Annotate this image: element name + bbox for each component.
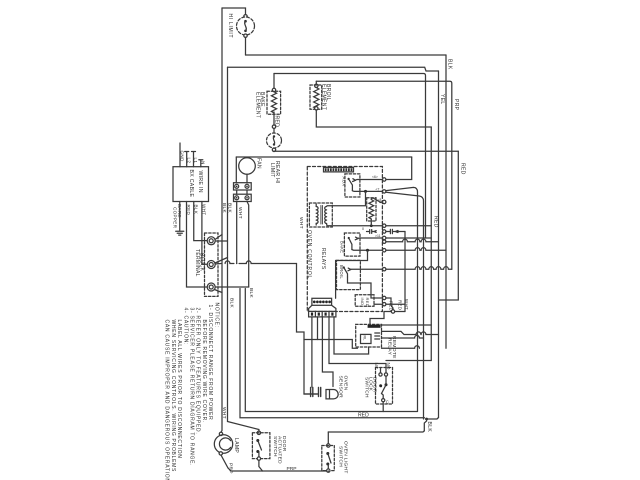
sensor bottom link bbox=[304, 393, 318, 395]
wire BLK to oven light switch bbox=[328, 431, 424, 432]
fan motor M1 bbox=[239, 158, 256, 175]
svg-text:L2: L2 bbox=[186, 158, 191, 164]
svg-text:BX CABLE: BX CABLE bbox=[188, 170, 194, 198]
wire hi-limit top feed bbox=[222, 8, 246, 15]
remote row2b continue bbox=[421, 332, 439, 335]
door lock blade dot left bbox=[379, 384, 382, 387]
wire terminal7 upper fork to x=417 vertical bbox=[386, 187, 418, 411]
oven sensor probe bars bbox=[311, 388, 321, 397]
remote row4 y=348.3 bbox=[382, 346, 420, 349]
terminal pin11b bbox=[383, 240, 386, 243]
capacitor inside control bbox=[367, 230, 377, 234]
oven light switch dashed box bbox=[322, 446, 335, 471]
terminal pin6 bbox=[383, 178, 386, 181]
svg-text:C: C bbox=[386, 400, 389, 405]
svg-text:ELEMENT: ELEMENT bbox=[320, 84, 326, 110]
wire L2 stub bbox=[185, 152, 189, 167]
svg-text:BLK: BLK bbox=[426, 422, 432, 433]
oven light bottom link bbox=[327, 464, 330, 469]
bake element dashed box bbox=[267, 91, 281, 114]
wire riser x=227.5 (T1 up to bus, down to door switch) bbox=[228, 67, 259, 431]
wire pin11 row bbox=[386, 237, 431, 239]
wire L1 stub bbox=[192, 152, 196, 167]
hi-limit bottom terminal bbox=[244, 34, 247, 37]
resistor top to pin8 bbox=[371, 198, 382, 202]
transformer primary coil bbox=[316, 207, 318, 224]
rear hi-limit dot upper bbox=[273, 135, 275, 137]
terminal pin13 broil relay out bbox=[383, 268, 386, 271]
wire pin15 row bbox=[386, 303, 405, 305]
rear hi-limit blade bbox=[273, 137, 274, 145]
hi-limit contact dot lower bbox=[244, 30, 247, 33]
svg-text:WHT: WHT bbox=[298, 217, 304, 229]
broil common chain bbox=[348, 277, 383, 298]
remote relay coil bar bbox=[368, 325, 381, 328]
aux contact row to pin6 bbox=[356, 179, 383, 182]
wire terminal7 lower fork to x=423.5 vertical bbox=[386, 192, 424, 419]
svg-text:SWITCH: SWITCH bbox=[338, 446, 344, 467]
svg-text:0: 0 bbox=[362, 227, 364, 231]
fan box interlink right bbox=[246, 190, 248, 194]
svg-text:NO: NO bbox=[386, 363, 391, 370]
svg-text:WHT: WHT bbox=[221, 407, 227, 419]
indicator right link bbox=[374, 303, 382, 305]
wire pin9 row bbox=[386, 225, 431, 227]
wire left main vertical BLK (hi-limit to lamp) bbox=[221, 8, 222, 432]
remote relay contact bits bbox=[375, 333, 380, 339]
svg-text:RED: RED bbox=[397, 300, 402, 310]
wire fan WHT join T2 bbox=[236, 263, 238, 265]
wire RED line x=240 down bbox=[240, 289, 425, 418]
svg-text:<8: <8 bbox=[378, 198, 382, 202]
junction aux common bbox=[364, 190, 367, 193]
wire strip pin4 to lock NO bbox=[329, 317, 386, 373]
svg-text:PRP: PRP bbox=[228, 463, 234, 474]
door lock switch dashed box bbox=[376, 368, 393, 405]
bake element top stub bbox=[273, 74, 275, 89]
wire GND drop into box bbox=[179, 143, 181, 167]
wire WHT drop x=201.9 bbox=[202, 202, 207, 265]
svg-text:SWITCH: SWITCH bbox=[364, 377, 370, 398]
wire pin8 stub bbox=[380, 201, 382, 204]
svg-text:BLK: BLK bbox=[221, 203, 227, 213]
connector pin strip bbox=[309, 311, 336, 317]
svg-text:>11: >11 bbox=[375, 234, 381, 238]
terminal block dashed box bbox=[205, 233, 219, 296]
fan bottom drop bbox=[246, 174, 248, 182]
svg-text:CAN CAUSE IMPROPER AND DANGERO: CAN CAUSE IMPROPER AND DANGEROUS OPERATI… bbox=[164, 320, 170, 480]
terminal remote relay feed bbox=[391, 310, 394, 313]
svg-text:RED: RED bbox=[358, 412, 369, 418]
wire x=438.5 to junction bbox=[427, 418, 439, 420]
svg-text:WHT: WHT bbox=[237, 207, 243, 219]
broil element resistor bbox=[314, 88, 319, 109]
rear hi-limit top link bbox=[273, 128, 275, 133]
remote row2 y=331.4 bbox=[382, 331, 421, 334]
svg-text:BLK: BLK bbox=[447, 59, 453, 70]
door actuated switch top terminal bbox=[257, 431, 260, 434]
oven light blade bbox=[328, 454, 331, 464]
door lock common bbox=[382, 394, 384, 399]
svg-text:RED: RED bbox=[186, 205, 191, 216]
terminal pin12 bbox=[383, 249, 386, 252]
svg-text:WIRE IN: WIRE IN bbox=[197, 171, 203, 193]
bake element bottom terminal bbox=[272, 125, 275, 128]
resistor R1 vertical bbox=[369, 200, 374, 220]
wire T1 to riser Vb bbox=[215, 235, 228, 242]
door actuated blade bbox=[258, 441, 262, 451]
svg-text:COPPER: COPPER bbox=[172, 207, 177, 229]
svg-text:BLK: BLK bbox=[248, 288, 254, 298]
wire fan BLK drop x=248.7 bbox=[247, 202, 249, 288]
wire BLK top bus y=55 bbox=[246, 54, 447, 56]
svg-text:RED: RED bbox=[365, 298, 370, 307]
terminal pin14 bbox=[383, 296, 386, 299]
wire fuse RED vertical x=458.3 bbox=[439, 151, 459, 300]
svg-text:GND: GND bbox=[180, 151, 185, 162]
fan bracket left drop bbox=[235, 157, 237, 183]
door lock C terminal bbox=[382, 399, 385, 402]
rear hi limit switch S2 (oven fuse) bbox=[267, 133, 282, 148]
svg-text:FAN: FAN bbox=[256, 158, 262, 169]
door lock NC stub bbox=[380, 368, 382, 373]
svg-text:WHEN SERVICING CONTROLS. WIRIN: WHEN SERVICING CONTROLS. WIRING PROBLEMS bbox=[170, 320, 176, 473]
svg-text:BLK: BLK bbox=[227, 203, 233, 213]
fan box interlink left bbox=[236, 190, 238, 194]
resistor bottom to row bbox=[370, 219, 372, 226]
svg-text:YEL: YEL bbox=[439, 94, 445, 105]
wire RED drop x=186.5 bbox=[187, 202, 208, 288]
svg-text:OVEN CONTROL: OVEN CONTROL bbox=[306, 230, 312, 279]
connector trapezoid bbox=[309, 305, 336, 311]
wire RED mid bus x=431.25 bbox=[386, 127, 431, 361]
fan connector box upper bbox=[234, 183, 252, 190]
wire N stub bbox=[199, 160, 203, 167]
oven light bottom stub bbox=[327, 470, 329, 472]
remote relay inner box bbox=[361, 334, 372, 343]
rear hi-limit dot lower bbox=[273, 143, 275, 145]
bake common to junction bbox=[352, 249, 383, 252]
svg-text:N: N bbox=[201, 161, 206, 165]
remote relay dashed box bbox=[356, 324, 382, 347]
svg-text:1- DISCONNECT RANGE FROM POWER: 1- DISCONNECT RANGE FROM POWER bbox=[207, 305, 213, 421]
bake relay contact arrow bbox=[355, 237, 358, 240]
broil relay blade bbox=[344, 268, 348, 278]
wire BLK right vertical x=446 bbox=[445, 55, 447, 348]
wire T2 line down x=296.5 bbox=[297, 264, 318, 395]
wire hi-limit bottom riser bbox=[245, 37, 247, 55]
aux relay pivot bbox=[348, 178, 350, 180]
svg-text:RED: RED bbox=[432, 216, 438, 228]
wire sensor row y=339.5 bbox=[304, 340, 358, 349]
terminal pin11 bbox=[383, 236, 386, 239]
lamp top terminal bbox=[219, 432, 222, 435]
terminal pin10 cap row bbox=[383, 230, 386, 233]
door lock blade bbox=[382, 376, 387, 393]
junction bake common bbox=[366, 249, 369, 252]
svg-text:<6>: <6> bbox=[372, 175, 378, 179]
door actuated bottom link bbox=[258, 452, 260, 458]
oven light switch bottom terminal bbox=[327, 469, 330, 472]
wire RED line x=245.3 down bbox=[245, 289, 417, 412]
wire strip pin5 to remote relay bbox=[334, 317, 369, 354]
wire fan top line y=157 bbox=[236, 156, 411, 158]
wire T3 row y=287 bbox=[215, 286, 249, 288]
bake element bottom stub bbox=[273, 112, 275, 125]
wire remote relay feed right bbox=[395, 311, 405, 313]
broil element dashed box bbox=[310, 85, 322, 109]
oven lamp bbox=[214, 435, 232, 453]
wire bake top bus y=73.5 to bake-relay vertical bbox=[274, 74, 426, 239]
rear hi-limit bottom terminal bbox=[272, 148, 275, 151]
wire T3 diagonal down bbox=[215, 290, 223, 293]
svg-text:SENSOR: SENSOR bbox=[338, 376, 344, 399]
door actuated bottom to PRP bbox=[259, 460, 263, 471]
broil relay pivot bbox=[343, 266, 345, 268]
ground symbol bbox=[176, 231, 184, 235]
control board connector bar bbox=[324, 168, 354, 172]
wire pin14 link bbox=[386, 298, 393, 310]
capacitor on pin10 row bbox=[386, 229, 405, 233]
svg-text:NOTICE:: NOTICE: bbox=[213, 303, 219, 328]
svg-text:RED: RED bbox=[460, 163, 466, 175]
wire BLK drop x=193.75 bbox=[194, 202, 207, 241]
junction resistor bottom bbox=[370, 224, 373, 227]
hi-limit contact dot upper bbox=[244, 20, 247, 23]
door actuated dot top bbox=[256, 439, 259, 442]
wire T2 row y=263.5 bbox=[215, 261, 296, 264]
broil element bottom terminal bbox=[315, 107, 318, 110]
aux common to junction bbox=[352, 190, 382, 193]
terminal pin8 bbox=[383, 200, 386, 203]
svg-text:LAMP: LAMP bbox=[233, 438, 239, 453]
wire YEL vertical x=438.5 bbox=[438, 71, 440, 418]
oven light dot bottom bbox=[326, 463, 329, 466]
door lock NC terminal bbox=[379, 373, 382, 376]
svg-text:BLK: BLK bbox=[193, 205, 198, 215]
terminal T2 bbox=[207, 261, 215, 269]
lamp bottom to PRP line bbox=[221, 455, 328, 471]
svg-text:BEFORE REMOVING WIRE COVER.: BEFORE REMOVING WIRE COVER. bbox=[201, 320, 207, 424]
wire junction continue bbox=[424, 419, 426, 431]
terminal T3 bbox=[207, 283, 215, 291]
oven light dot top bbox=[326, 452, 329, 455]
svg-text:AUX: AUX bbox=[342, 177, 347, 187]
resistor dashed box bbox=[367, 198, 376, 221]
fan connector box lower bbox=[234, 194, 252, 201]
svg-text:L1: L1 bbox=[193, 158, 198, 164]
wire strip pin2 drop bbox=[317, 317, 319, 340]
svg-text:RL: RL bbox=[363, 336, 367, 341]
lamp bottom terminal bbox=[219, 452, 222, 455]
wire pin6 row bbox=[386, 157, 412, 180]
bake relay dashed box bbox=[344, 233, 360, 256]
svg-text:BAKE: BAKE bbox=[339, 241, 344, 253]
svg-text:IND: IND bbox=[360, 298, 365, 306]
svg-text:LIMIT: LIMIT bbox=[269, 163, 275, 178]
hi-limit top terminal bbox=[244, 15, 247, 18]
wire fuse RED line y=151.3 bbox=[274, 150, 458, 152]
broil element top stub bbox=[315, 81, 317, 84]
svg-text:HI LIMIT: HI LIMIT bbox=[227, 14, 233, 39]
oven control dashed box bbox=[307, 167, 382, 312]
svg-text:RELAY: RELAY bbox=[387, 338, 393, 356]
transformer core bbox=[321, 206, 323, 225]
aux relay blade bbox=[349, 179, 353, 191]
wire fan WHT drop x=236.3 bbox=[236, 202, 238, 264]
door lock C to RED line bbox=[382, 402, 384, 412]
svg-text:2- REFER ONLY TO FEATURES EQUI: 2- REFER ONLY TO FEATURES EQUIPPED. bbox=[195, 308, 201, 435]
bake relay blade bbox=[349, 238, 352, 250]
svg-text:4- CAUTION:: 4- CAUTION: bbox=[182, 308, 188, 346]
broil element top terminal bbox=[315, 84, 318, 87]
junction bottom right bbox=[425, 418, 428, 421]
wire bare copper drop bbox=[179, 202, 181, 231]
svg-text:BLK: BLK bbox=[228, 298, 234, 308]
wire pin12 row bbox=[386, 248, 446, 251]
bake element resistor bbox=[271, 92, 276, 113]
broil relay contact arrow bbox=[348, 268, 351, 271]
wire x=405 down bbox=[404, 232, 406, 312]
front hi limit switch S1 bbox=[237, 17, 255, 35]
oven light switch top terminal bbox=[327, 444, 330, 447]
bake contact row pin11 bbox=[358, 237, 382, 239]
svg-text:<7: <7 bbox=[376, 187, 380, 191]
svg-text:3- SERVICER PLEASE RETURN DIAG: 3- SERVICER PLEASE RETURN DIAGRAM TO RAN… bbox=[189, 308, 195, 467]
svg-text:WHT: WHT bbox=[202, 204, 207, 215]
svg-text:WHT: WHT bbox=[404, 299, 409, 310]
indicator dashed box bbox=[355, 295, 374, 307]
bake element top terminal bbox=[272, 88, 275, 91]
svg-text:RED: RED bbox=[389, 301, 394, 311]
door lock blade dot right bbox=[385, 383, 388, 386]
terminal pin15 bbox=[383, 303, 386, 306]
bake relay pivot bbox=[348, 237, 350, 239]
terminal T1 bbox=[207, 237, 215, 245]
svg-text:SWITCH: SWITCH bbox=[272, 436, 278, 457]
transformer secondary coil bbox=[325, 207, 327, 224]
remote row1 y=325 bbox=[382, 324, 432, 326]
transformer dashed box bbox=[309, 203, 332, 227]
oven sensor bulb bbox=[326, 390, 338, 399]
transformer secondary bottom row bbox=[327, 224, 383, 226]
svg-text:LABEL ALL WIRES PRIOR TO DISCO: LABEL ALL WIRES PRIOR TO DISCONNECTION bbox=[176, 320, 182, 459]
svg-text:PRP: PRP bbox=[287, 466, 297, 472]
terminal pin7 bbox=[383, 190, 386, 193]
svg-text:BLOCK: BLOCK bbox=[199, 253, 205, 272]
wire strip pin3 to sensor bulb bbox=[322, 317, 333, 387]
door actuated dot bottom bbox=[256, 450, 259, 453]
terminal pin9 bbox=[383, 224, 386, 227]
wire pin11b row bbox=[386, 239, 439, 242]
wire strip pin1 to sensor bar1 bbox=[311, 317, 313, 387]
wire broil bottom to RED bus bbox=[316, 110, 431, 127]
svg-text:NC: NC bbox=[374, 363, 379, 370]
svg-text:PRP: PRP bbox=[453, 99, 459, 111]
bake junction staircase down bbox=[336, 250, 368, 298]
door lock NO terminal bbox=[384, 373, 387, 376]
remote row3 y=338 bbox=[382, 335, 424, 338]
door actuated switch bottom terminal bbox=[257, 457, 260, 460]
wire riser bus y=67 to YEL corner bbox=[228, 67, 439, 71]
transformer primary stubs bbox=[315, 204, 317, 225]
broil contact row pin13 bbox=[351, 268, 383, 270]
control connector strip black dots bbox=[312, 298, 332, 305]
wire broil top bus y=81.3 to PRP vertical bbox=[316, 81, 452, 269]
wire pin13 row bbox=[386, 267, 452, 270]
remote relay feed link bbox=[370, 312, 391, 325]
aux relay contact arrow bbox=[353, 179, 356, 182]
oven light switch riser bbox=[327, 432, 329, 444]
junction down to transformer bbox=[327, 191, 366, 205]
wire T2 diagonal to Vb bbox=[215, 258, 228, 264]
hi-limit blade bbox=[245, 21, 247, 31]
svg-text:ELEMENT: ELEMENT bbox=[254, 92, 260, 118]
broil relay dashed box bbox=[337, 260, 361, 289]
aux relay dashed box bbox=[345, 174, 360, 197]
svg-text:RELAYS: RELAYS bbox=[320, 248, 326, 270]
door actuated switch dashed box bbox=[252, 433, 270, 459]
wire-in BX cable box bbox=[173, 167, 209, 202]
